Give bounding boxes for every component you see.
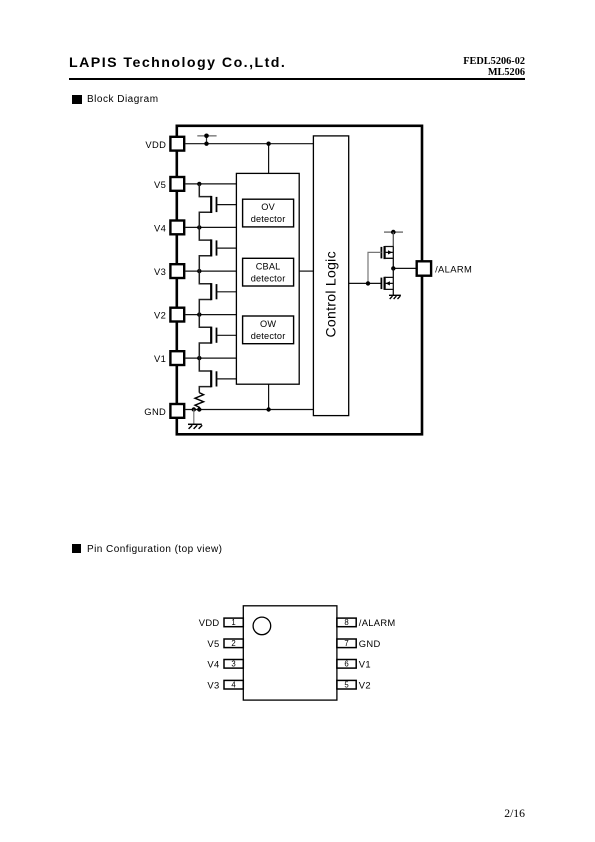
node VDD junction bbox=[204, 142, 208, 146]
pin 1 VDD bbox=[199, 617, 244, 628]
svg-text:VDD: VDD bbox=[145, 139, 166, 150]
header rule bbox=[69, 78, 525, 80]
wire V2 bbox=[185, 314, 236, 316]
pin 2 V5 bbox=[207, 638, 243, 649]
VDD supply symbol at output stage bbox=[384, 230, 403, 247]
svg-text:7: 7 bbox=[344, 639, 348, 648]
CBAL detector box bbox=[243, 258, 294, 286]
node V5 junction bbox=[197, 182, 201, 186]
node VDD-detector junction bbox=[266, 142, 270, 146]
ground symbol at output NMOS bbox=[389, 295, 401, 299]
control logic block U1 bbox=[313, 136, 348, 416]
svg-text:V4: V4 bbox=[207, 659, 219, 670]
pin GND bbox=[144, 404, 184, 418]
pin 6 V1 bbox=[337, 659, 371, 670]
wire GND rail bbox=[185, 409, 313, 411]
node gate junction bbox=[366, 281, 370, 285]
svg-text:OV: OV bbox=[261, 202, 275, 212]
transistor Q4 (V2-V1 balancing FET) bbox=[199, 315, 236, 359]
wire VDD to detector block bbox=[268, 144, 270, 174]
pin /ALARM bbox=[417, 261, 472, 275]
svg-text:V5: V5 bbox=[154, 179, 166, 190]
wire VDD rail bbox=[185, 143, 313, 145]
svg-text:1: 1 bbox=[231, 618, 235, 627]
pin 1 marker circle bbox=[253, 617, 271, 635]
svg-text:V2: V2 bbox=[154, 310, 166, 321]
node V4 junction bbox=[197, 225, 201, 229]
transistor Q1 (V5-V4 balancing FET) bbox=[199, 184, 236, 228]
block boundary rectangle bbox=[177, 126, 422, 435]
wire detector block to GND rail bbox=[268, 384, 270, 409]
pin 5 V2 bbox=[337, 679, 371, 690]
pin VDD bbox=[145, 137, 184, 151]
pin V4 bbox=[154, 221, 184, 235]
pin V3 bbox=[154, 264, 184, 278]
svg-text:detector: detector bbox=[251, 273, 286, 283]
IC package body bbox=[243, 606, 337, 700]
section heading: Block Diagram bbox=[72, 95, 82, 104]
pin 7 GND bbox=[337, 638, 381, 649]
pin 8 /ALARM bbox=[337, 617, 396, 628]
svg-text:/ALARM: /ALARM bbox=[359, 617, 396, 628]
pin 3 V4 bbox=[207, 659, 243, 670]
VDD supply symbol bbox=[197, 134, 216, 144]
OW detector box bbox=[243, 316, 294, 344]
wire output node to /ALARM pin bbox=[393, 267, 416, 269]
transistor Q7 (NMOS output) bbox=[381, 268, 393, 295]
svg-text:detector: detector bbox=[251, 331, 286, 341]
LAPIS logo text bbox=[69, 55, 286, 71]
node V1 junction bbox=[197, 356, 201, 360]
wire control logic to output gates bbox=[349, 282, 381, 284]
transistor Q2 (V4-V3 balancing FET) bbox=[199, 227, 236, 271]
ground symbol at GND pin bbox=[188, 410, 202, 429]
resistor R1 bbox=[195, 393, 204, 410]
svg-text:8: 8 bbox=[344, 618, 348, 627]
svg-text:V1: V1 bbox=[359, 659, 371, 670]
detector block box bbox=[236, 173, 299, 384]
wire detector to control logic bbox=[299, 270, 313, 272]
svg-text:detector: detector bbox=[251, 214, 286, 224]
svg-text:4: 4 bbox=[231, 681, 236, 690]
wire V1 bbox=[185, 357, 236, 359]
svg-text:V2: V2 bbox=[359, 679, 371, 690]
svg-text:/ALARM: /ALARM bbox=[435, 263, 472, 274]
svg-text:V3: V3 bbox=[207, 679, 219, 690]
transistor Q5 (V1-GND FET) bbox=[199, 358, 236, 393]
svg-text:GND: GND bbox=[144, 406, 166, 417]
svg-text:GND: GND bbox=[359, 638, 381, 649]
node GND-detector junction bbox=[266, 407, 270, 411]
node GND junction resistor bbox=[197, 407, 201, 411]
node V3 junction bbox=[197, 269, 201, 273]
node output junction bbox=[391, 266, 395, 270]
svg-text:OW: OW bbox=[260, 319, 276, 329]
wire V5 bbox=[185, 183, 236, 185]
pin V1 bbox=[154, 351, 184, 365]
svg-text:2: 2 bbox=[231, 639, 235, 648]
svg-text:V4: V4 bbox=[154, 223, 166, 234]
node V2 junction bbox=[197, 312, 201, 316]
svg-text:V5: V5 bbox=[207, 638, 219, 649]
pin 4 V3 bbox=[207, 679, 243, 690]
svg-text:VDD: VDD bbox=[199, 617, 220, 628]
OV detector box bbox=[243, 199, 294, 227]
section heading: Pin Configuration bbox=[72, 544, 81, 553]
svg-text:V3: V3 bbox=[154, 266, 166, 277]
svg-text:3: 3 bbox=[231, 660, 235, 669]
svg-text:Control Logic: Control Logic bbox=[322, 251, 338, 337]
pin V5 bbox=[154, 177, 184, 191]
transistor Q3 (V3-V2 balancing FET) bbox=[199, 271, 236, 315]
wire V4 bbox=[185, 226, 236, 228]
document number FEDL5206-02 / ML5206 bbox=[325, 57, 525, 78]
pin V2 bbox=[154, 308, 184, 322]
wire V3 bbox=[185, 270, 236, 272]
svg-text:5: 5 bbox=[344, 681, 349, 690]
wire PMOS gate link bbox=[368, 252, 381, 283]
transistor Q6 (PMOS output) bbox=[381, 246, 393, 268]
svg-text:CBAL: CBAL bbox=[256, 261, 281, 271]
svg-text:6: 6 bbox=[344, 660, 348, 669]
footer page number bbox=[425, 807, 525, 820]
svg-text:V1: V1 bbox=[154, 353, 166, 364]
node GND junction left bbox=[192, 407, 196, 411]
